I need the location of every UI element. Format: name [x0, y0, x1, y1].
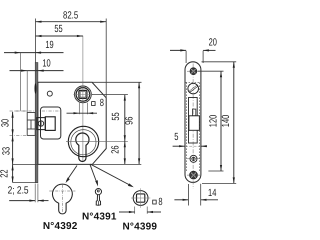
dim 55 top [36, 35, 83, 37]
euro profile cylinder hole [76, 133, 89, 161]
N4391 key symbol [95, 189, 101, 206]
svg-text:14: 14 [208, 188, 216, 199]
svg-text:2; 2.5: 2; 2.5 [8, 186, 29, 197]
svg-text:19: 19 [45, 40, 53, 51]
cylinder thin circle [71, 130, 96, 155]
lock case outline [38, 82, 106, 164]
svg-text:22: 22 [0, 169, 10, 177]
svg-text:N°4392: N°4392 [43, 221, 78, 232]
cylinder horizontal centerline [66, 140, 128, 142]
dim 82.5 [36, 21, 107, 23]
roller bolt neck [193, 109, 196, 116]
svg-text:8: 8 [158, 197, 162, 208]
svg-text:55: 55 [111, 112, 122, 120]
top screw hole (hatched) [190, 68, 197, 75]
leader to 4399 [91, 164, 132, 186]
dim 20 top [185, 51, 187, 63]
svg-text:30: 30 [0, 119, 11, 127]
case screw hole [47, 91, 52, 96]
ext line case back top [105, 19, 107, 98]
dim line 96 [138, 82, 140, 164]
roller bolt body [189, 116, 200, 131]
N4399 dim arrows [134, 207, 136, 214]
dash-dot ext latch bottom [10, 134, 39, 136]
ext case top right [92, 81, 141, 83]
svg-text:10: 10 [42, 58, 50, 69]
N4392 euro cylinder symbol [53, 184, 73, 214]
bottom screw hole hatched [190, 171, 198, 179]
sq 8 dim arrows [67, 112, 98, 114]
svg-text:N°4399: N°4399 [122, 221, 157, 232]
dim 140 [233, 62, 235, 184]
latch shaft bold box [37, 118, 46, 130]
lower screw hole slotted [190, 155, 197, 162]
cylinder bold circle [68, 126, 98, 156]
ext lines right side [202, 61, 237, 63]
latch axis dash-dot [15, 110, 60, 112]
slotted adjuster screw [188, 83, 199, 94]
ext case bottom left [13, 163, 38, 165]
ext faceplate bottom left [13, 182, 36, 184]
svg-text:33: 33 [1, 147, 12, 155]
follower hub [73, 86, 92, 103]
dim line 55/26 vertical [124, 95, 126, 165]
dim 19 [4, 52, 64, 54]
latch bold square [45, 117, 55, 131]
svg-text:55: 55 [54, 24, 62, 35]
svg-text:96: 96 [125, 116, 136, 124]
svg-text:26: 26 [111, 145, 122, 153]
screw centerline ticks [187, 71, 200, 175]
square glyph [92, 102, 96, 106]
ext hub center right [92, 94, 128, 96]
latch body rounded box [41, 107, 61, 139]
plate centerline [192, 64, 194, 189]
sq hole ext lines [78, 103, 80, 114]
ext line faceplate front [35, 19, 37, 64]
svg-text:20: 20 [209, 37, 217, 48]
svg-text:8: 8 [100, 98, 104, 109]
plate outline [185, 62, 201, 183]
dash-dot ext latch top [10, 110, 28, 112]
faceplate slot lens [35, 83, 37, 93]
faceplate strip [35, 63, 38, 183]
vertical centerline through hub and cylinder [82, 36, 84, 161]
latch head (protruding bolt) [27, 113, 35, 136]
ext line latch face [26, 71, 28, 112]
N4399 square follower symbol [133, 191, 148, 206]
cutout rect [189, 98, 198, 144]
svg-text:82.5: 82.5 [63, 10, 78, 21]
latch pin circle with slot [38, 121, 43, 126]
svg-text:120: 120 [208, 115, 219, 128]
dim 120 [220, 71, 222, 171]
ext case bottom right [92, 163, 141, 165]
dim 14 bottom [187, 184, 189, 206]
leader to 4392 [67, 166, 78, 181]
svg-text:140: 140 [221, 115, 232, 128]
leader to 4391 [90, 165, 97, 185]
dim 10 [10, 70, 64, 72]
svg-text:N°4391: N°4391 [82, 212, 117, 223]
plate hidden dashed lines [186, 82, 188, 171]
N4399 square-8 label [153, 200, 157, 204]
dim line 30/33/22 [12, 112, 14, 183]
ext line 19 (deadbolt throw) [19, 53, 21, 111]
svg-text:5: 5 [174, 132, 178, 143]
